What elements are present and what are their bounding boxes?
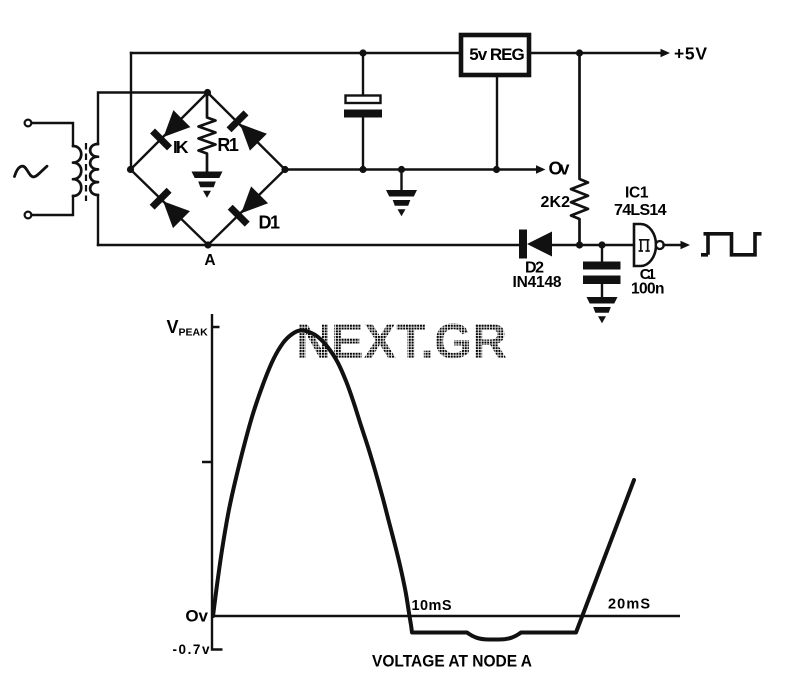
capacitor C1 top lead [601,245,603,262]
transformer T1 secondary winding [90,144,98,195]
svg-text:D1: D1 [259,213,281,233]
graph y axis [202,314,680,650]
ground below R1 [192,172,223,198]
svg-text:74LS14: 74LS14 [614,202,667,219]
wire top rail [131,52,461,54]
ac sine symbol [15,166,48,177]
svg-text:IK: IK [173,137,189,157]
transformer core [85,143,87,201]
bridge diamond wires [131,93,286,246]
junction dot +5V rail [576,49,583,56]
wire bottom rail from transformer to D2 [98,244,519,246]
wire primary top [32,123,74,146]
wire secondary top to bridge top node [98,93,208,145]
wire regulator ground to Ov rail [496,75,498,170]
ac source terminal bottom [25,212,32,219]
svg-text:IN4148: IN4148 [513,274,562,291]
svg-text:20mS: 20mS [608,597,650,613]
junction dot reg gnd on Ov rail [493,166,500,173]
Ov rail arrow [536,165,546,174]
junction dot bridge left [127,166,134,173]
capacitor C1 bottom plate [583,276,621,285]
svg-text:Ov: Ov [185,607,208,626]
svg-text:10mS: 10mS [412,598,452,614]
ground below C1 [587,297,618,323]
bridge diode top-left [150,110,190,150]
junction dot node A [204,241,211,248]
inverter output bubble [656,241,664,249]
junction dot 2K2 bottom [576,241,583,248]
ac source terminal top [25,120,32,127]
svg-text:A: A [204,252,215,269]
svg-text:100n: 100n [631,281,665,298]
schmitt hysteresis mark [639,240,650,251]
wire Ov rail [285,168,536,170]
junction dot bridge right [281,166,288,173]
resistor R1 [199,93,216,172]
wire left vertical to bridge left node [130,53,132,170]
bridge diode bottom-left [150,188,190,228]
reservoir capacitor top plate (open) [346,96,381,104]
+5V arrow [661,49,671,58]
ground on Ov rail [400,170,402,191]
wire inverter output [664,244,682,246]
junction dot cap bottom [359,166,366,173]
junction dot bridge top [204,89,211,96]
output arrow [681,241,691,250]
svg-text:NEXT.GR: NEXT.GR [296,315,507,369]
diode D2 cathode bar [519,230,527,259]
waveform curve [213,330,634,639]
bridge diode bottom-right D1 [228,186,268,226]
reservoir capacitor bottom plate [344,110,382,118]
wire D2 to gate input [552,244,634,246]
schmitt inverter IC1 body [634,224,656,266]
junction dot cap top [359,49,366,56]
junction dot gnd on Ov rail [398,166,405,173]
capacitor C1 bottom lead [601,284,603,297]
junction dot C1 top [598,241,605,248]
svg-text:+5V: +5V [674,44,707,64]
svg-text:-0.7v: -0.7v [173,642,210,657]
square wave symbol [701,234,762,255]
svg-text:2K2: 2K2 [541,194,571,211]
svg-text:VOLTAGE AT NODE A: VOLTAGE AT NODE A [372,652,532,671]
wire +5V output [529,52,662,54]
reservoir capacitor top lead [362,53,364,95]
svg-text:IC1: IC1 [625,185,649,202]
svg-text:Ov: Ov [549,159,570,179]
wire primary bottom [32,196,74,215]
bridge diode top-right [227,110,267,150]
transformer T1 primary winding [73,146,81,196]
svg-text:5v REG: 5v REG [469,45,525,64]
svg-text:V: V [167,317,179,337]
diode D2 triangle [527,232,552,257]
reservoir capacitor bottom lead [362,118,364,170]
wire secondary bottom to bottom rail [97,195,99,245]
regulator U1 box [461,35,529,75]
svg-text:PEAK: PEAK [179,327,209,339]
svg-text:R1: R1 [217,135,239,155]
resistor 2K2 [571,53,588,245]
capacitor C1 top plate [583,262,621,270]
